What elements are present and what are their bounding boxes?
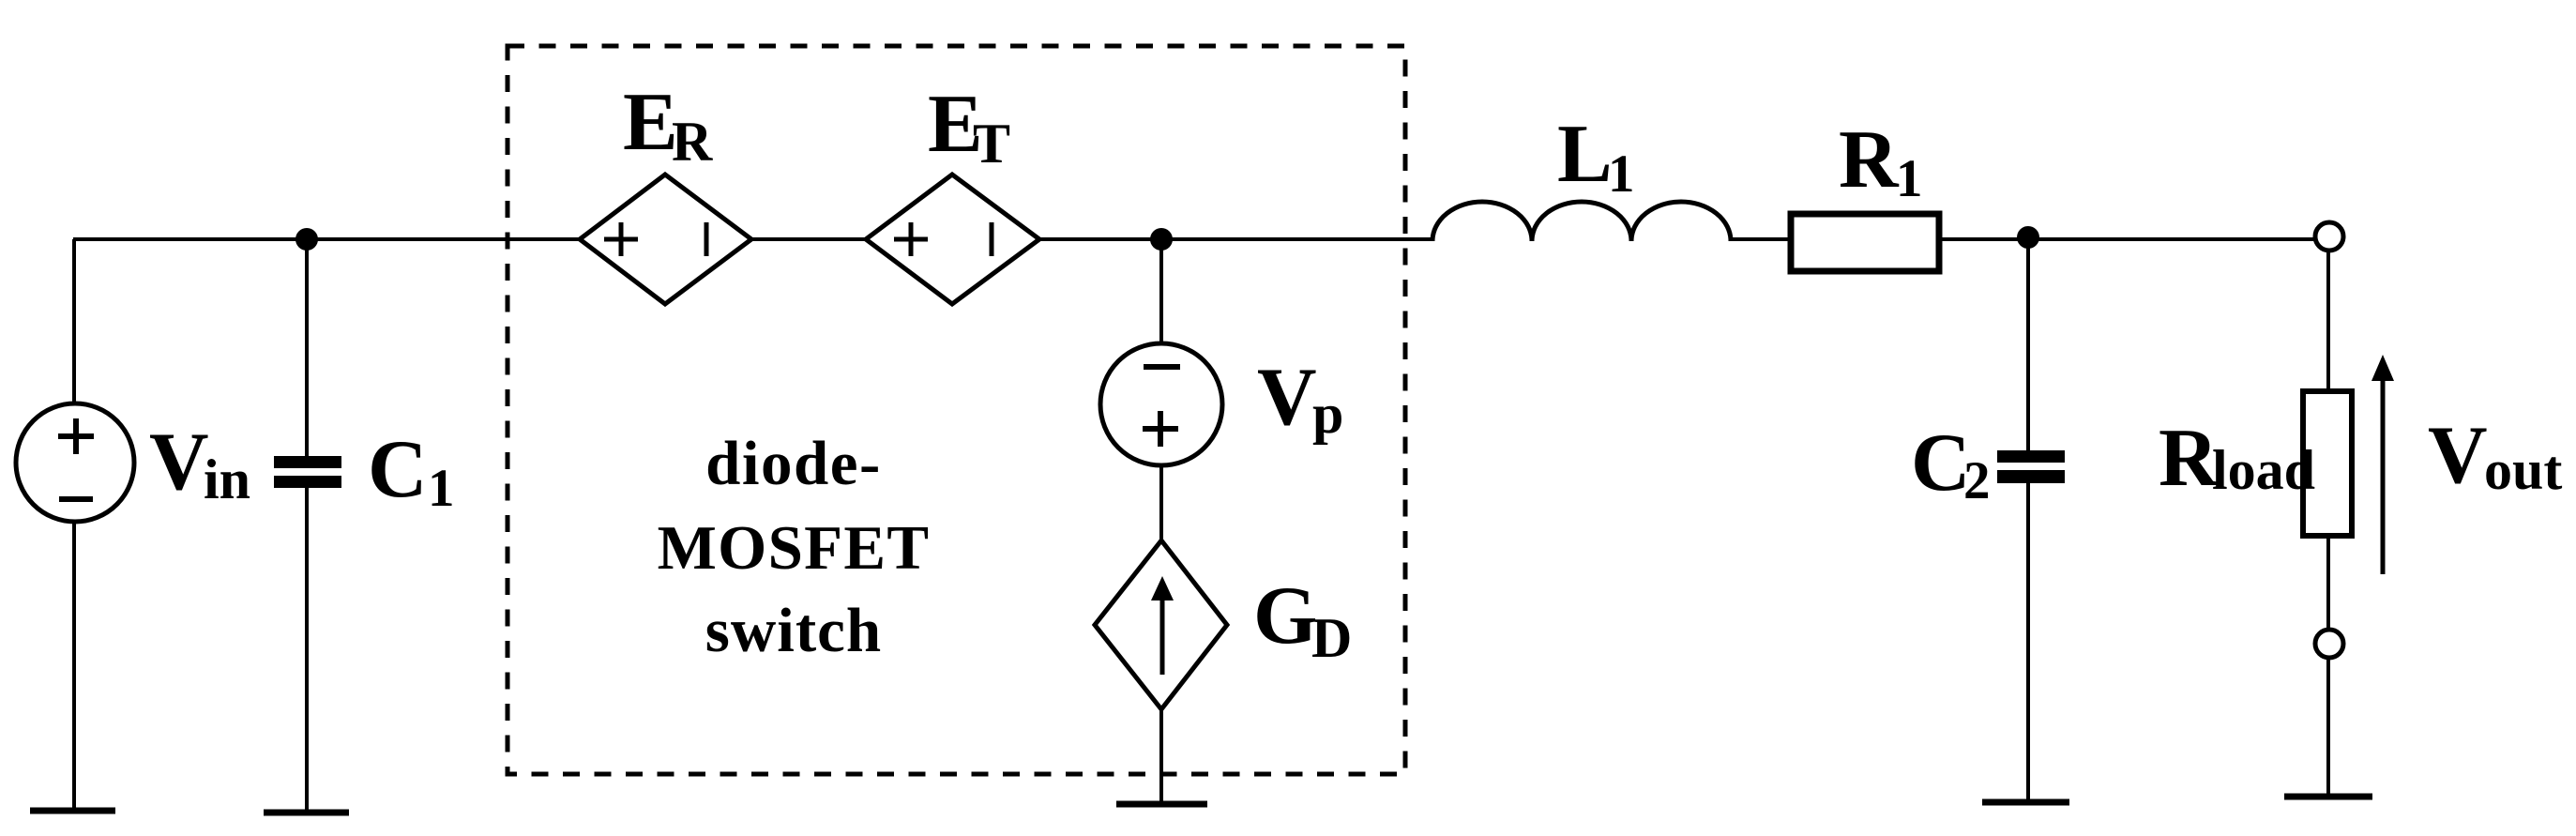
G_D arrow (1160, 595, 1165, 675)
Vout arrow (2381, 373, 2386, 574)
ground Vin (30, 808, 115, 814)
wire C2 bottom lead (2026, 482, 2030, 802)
dependent current source G_D diamond (1095, 540, 1227, 709)
svg-text:1: 1 (428, 459, 455, 518)
voltage source Vin circle (16, 403, 134, 522)
svg-text:C: C (1911, 418, 1971, 509)
svg-text:V: V (149, 417, 209, 508)
wire Vin bottom lead (72, 522, 76, 811)
output terminal bottom (open circle) (2315, 630, 2343, 658)
capacitor C2 bottom plate (1997, 470, 2065, 483)
svg-text:R: R (2159, 413, 2220, 504)
capacitor C1 top plate (274, 456, 341, 468)
svg-text:p: p (1312, 383, 1343, 445)
wire top bus: source to E_R (73, 237, 580, 241)
wire Vin top lead (72, 239, 76, 403)
capacitor C1 bottom plate (274, 476, 341, 488)
wire inductor to R1 (1731, 237, 1791, 241)
Vin minus sign (59, 496, 93, 502)
wire C1 bottom lead (305, 487, 309, 813)
Vp minus sign (1144, 364, 1180, 370)
ground G_D (1116, 801, 1207, 808)
node C junction dot (C2 tap) (2017, 226, 2039, 249)
wire R1 to output terminal (1939, 237, 2314, 241)
wire node to Vp (1159, 239, 1163, 343)
voltage source Vp circle (1100, 343, 1222, 465)
svg-text:V: V (2428, 410, 2488, 501)
wire between E_R and E_T (751, 237, 866, 241)
svg-text:out: out (2484, 439, 2562, 501)
svg-text:switch: switch (705, 596, 882, 665)
wire lower terminal to ground (2326, 658, 2330, 797)
ground Rload (2284, 794, 2372, 800)
wire Rload to lower terminal (2326, 536, 2330, 630)
E_T minus bar (990, 222, 994, 256)
svg-text:MOSFET: MOSFET (658, 513, 931, 583)
output terminal top (open circle) (2315, 222, 2343, 251)
svg-text:C: C (368, 424, 428, 515)
svg-text:T: T (973, 113, 1010, 175)
wire Rload top lead (2326, 251, 2330, 391)
wire C1 top lead (305, 239, 309, 457)
E_R minus bar (705, 222, 709, 256)
wire G_D bottom lead (1159, 707, 1163, 804)
svg-text:2: 2 (1963, 451, 1991, 510)
ground C1 (264, 810, 349, 816)
svg-text:L: L (1557, 109, 1613, 200)
node A junction dot (C1 tap) (295, 228, 318, 251)
E_R plus sign (604, 222, 638, 256)
ground C2 (1982, 799, 2069, 806)
svg-text:V: V (1257, 352, 1317, 443)
Vp plus sign (1143, 411, 1178, 447)
resistor R1 (1791, 214, 1939, 271)
wire E_T to inductor L1 (1039, 237, 1432, 241)
svg-text:1: 1 (1896, 149, 1923, 208)
wire Vp to G_D (1159, 465, 1163, 542)
wire C2 top lead (2026, 239, 2030, 452)
svg-text:diode-: diode- (705, 429, 882, 498)
svg-text:load: load (2212, 439, 2315, 501)
svg-text:D: D (1311, 607, 1352, 669)
svg-text:R: R (1839, 114, 1900, 205)
dependent source E_R diamond (580, 175, 751, 304)
dependent source E_T diamond (866, 175, 1039, 304)
E_T plus sign (894, 222, 928, 256)
node B junction dot (Vp branch) (1150, 228, 1173, 251)
capacitor C2 top plate (1997, 450, 2065, 463)
inductor L1 coil (1432, 202, 1731, 241)
Vin plus sign (58, 418, 94, 454)
svg-text:1: 1 (1608, 144, 1635, 204)
svg-text:in: in (204, 448, 250, 510)
svg-text:G: G (1253, 570, 1317, 661)
svg-text:R: R (672, 111, 713, 173)
svg-text:E: E (623, 77, 678, 168)
dashed box (diode-MOSFET switch) (508, 46, 1405, 774)
resistor Rload (2303, 391, 2352, 536)
